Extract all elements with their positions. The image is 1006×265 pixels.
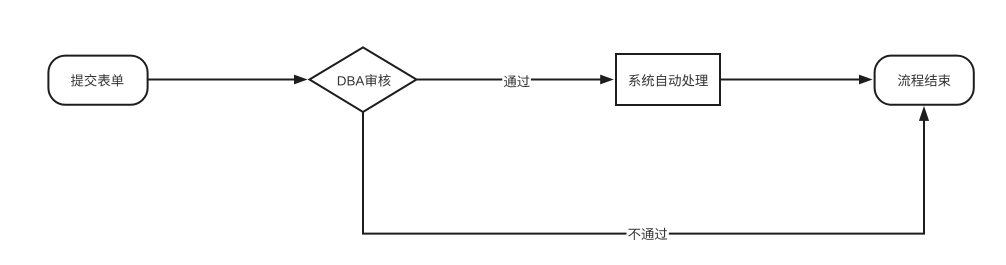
node: process 系统自动处理 [616, 54, 720, 105]
node: terminator 流程结束 [875, 56, 974, 105]
wire: 系统自动处理 -> 流程结束 [720, 75, 873, 85]
label: 不通过 (on feedback wire) [627, 226, 669, 241]
label: 通过 (on wire DBA审核 -> 系统自动处理) [502, 73, 531, 88]
wire: DBA审核 -> 流程结束 (不通过 feedback path) [363, 106, 929, 234]
node: decision DBA审核 [310, 47, 417, 112]
wire: 提交表单 -> DBA审核 [149, 75, 308, 85]
node: terminator 提交表单 [48, 56, 147, 105]
wire: DBA审核 -> 系统自动处理 [417, 75, 614, 85]
